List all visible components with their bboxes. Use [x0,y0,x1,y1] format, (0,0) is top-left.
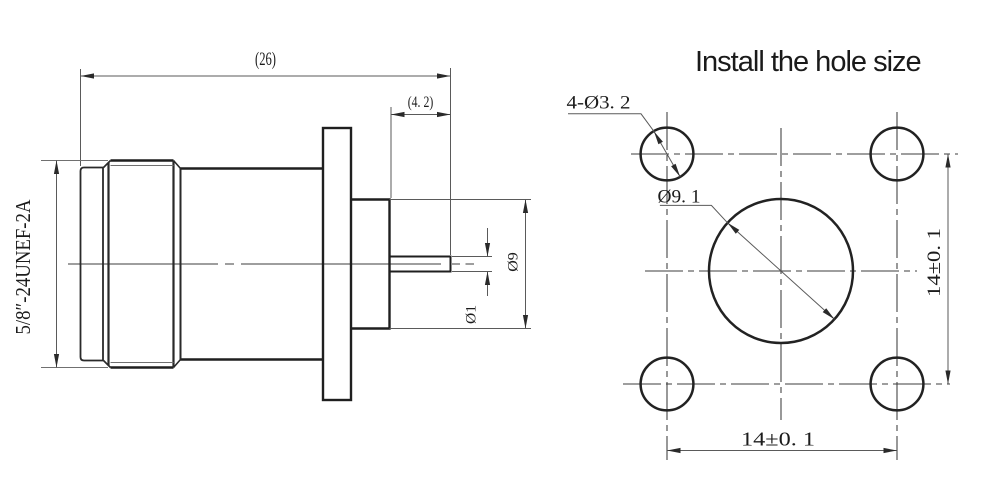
hole bottom-right [871,358,924,411]
centerline bottom holes horizontal [623,383,950,385]
hole top-left [641,128,694,181]
big center hole [709,199,853,343]
svg-text:4-Ø3. 2: 4-Ø3. 2 [567,93,631,114]
dim (4.2) extension line [390,107,392,198]
dim D1 extension lines [452,257,492,272]
thread dim line [56,161,58,368]
flange [323,128,351,400]
svg-text:(26): (26) [255,49,276,70]
svg-text:Ø9: Ø9 [506,252,522,272]
centerline big circle vertical [780,128,782,420]
svg-text:Ø9. 1: Ø9. 1 [658,187,701,208]
coupling-nut front lip (cap) [81,168,104,361]
dim 14 bottom line [667,450,897,452]
rear step [351,200,390,329]
hole bottom-left [641,358,694,411]
centerline left holes vertical [666,112,668,460]
thread dim extension lines [41,161,108,368]
centerline big circle horizontal [645,270,917,272]
svg-text:(4. 2): (4. 2) [408,94,434,111]
leader D9.1 diameter line [660,205,835,319]
centerline left view [68,263,474,265]
svg-text:14±0. 1: 14±0. 1 [924,228,945,297]
dim (4.2) line [391,114,451,116]
centerline top holes horizontal [631,153,958,155]
svg-text:Install the hole size: Install the hole size [695,46,921,78]
centerline right holes vertical [896,112,898,460]
dim D9 extension lines [390,200,532,329]
dim D1 arrow lines [487,228,489,296]
dim 14 right line [947,154,949,384]
thread chamfer slants [104,161,181,368]
thread minor-diameter thin lines [111,166,174,363]
leader 4-D3.2 [568,114,680,177]
pin [390,257,451,272]
dim (26) line [81,75,451,77]
svg-text:14±0. 1: 14±0. 1 [741,429,815,451]
svg-text:Ø1: Ø1 [464,305,480,324]
main barrel [181,169,324,360]
thread section outline [111,159,174,162]
svg-text:5/8″-24UNEF-2A: 5/8″-24UNEF-2A [11,199,35,335]
dim D9 line [525,200,527,329]
hole top-right [871,128,924,181]
dim (26) extension lines [81,68,451,255]
